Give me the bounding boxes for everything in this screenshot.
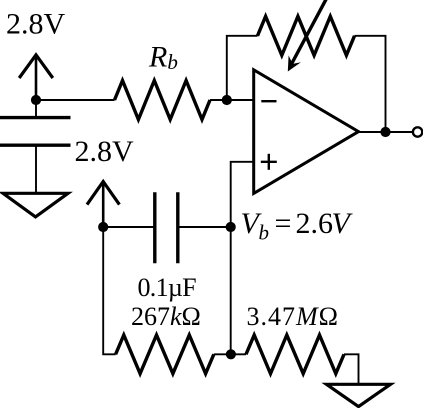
wire Rb to inverting input: [210, 99, 254, 101]
wire Rf right down to output: [355, 36, 386, 132]
wire node D to C2: [103, 226, 155, 228]
plus sign (non-inverting input): [261, 154, 277, 170]
output terminal (open circle): [413, 127, 422, 136]
svg-text:267kΩ: 267kΩ: [131, 302, 201, 331]
resistor R2 3.47M: [246, 335, 344, 374]
svg-text:3.47MΩ: 3.47MΩ: [247, 302, 340, 331]
wire node A to Rb: [36, 99, 115, 101]
wire node B up and over to Rf: [227, 36, 258, 100]
node C (output junction): [380, 127, 390, 137]
svg-text:0.1µF: 0.1µF: [138, 273, 197, 302]
wire plus input to node Vb: [231, 162, 254, 227]
supply arrow V2 (bias up arrow): [87, 182, 119, 228]
minus sign (inverting input): [261, 100, 276, 102]
wire C1 to ground: [35, 145, 37, 193]
supply arrow V1 (2.8V up arrow): [19, 55, 53, 100]
resistor Rb: [115, 81, 211, 120]
capacitor C2 0.1uF: [155, 192, 178, 263]
svg-text:Vb=2.6V: Vb=2.6V: [241, 207, 354, 245]
ground (right): [327, 384, 391, 406]
wire output: [359, 131, 413, 133]
capacitor C1 (bypass, plates cut by left edge): [0, 118, 71, 146]
variable resistor Rf (feedback): [258, 16, 355, 55]
svg-text:2.8V: 2.8V: [75, 135, 135, 168]
resistor R1 267k: [116, 335, 214, 374]
ground (left): [3, 193, 68, 217]
wire node A down to capacitor C1: [35, 100, 37, 118]
op-amp U1: [254, 70, 359, 194]
node A (top-left junction): [31, 95, 41, 105]
node B (inverting input junction): [222, 95, 232, 105]
node E (bottom junction): [226, 349, 236, 359]
wire node D down to R1: [103, 227, 115, 354]
wire C2 to node Vb: [178, 226, 231, 228]
wire node Vb down to node E: [230, 227, 232, 354]
arrow across Rf (variable): [288, 0, 328, 72]
node Vb: [226, 222, 236, 232]
wire R1 to node E: [214, 353, 246, 355]
node D (left bias junction): [98, 222, 108, 232]
svg-text:2.8V: 2.8V: [6, 7, 66, 40]
wire R2 to ground (right): [344, 354, 359, 384]
